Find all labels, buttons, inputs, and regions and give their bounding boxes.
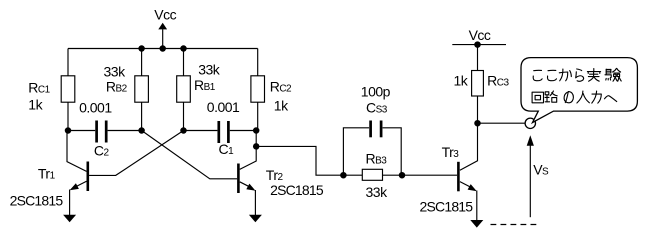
svg-text:Vcc: Vcc — [469, 27, 491, 43]
wire: rail down to RC1 — [67, 49, 69, 76]
wire: CS3 right leg — [383, 128, 402, 175]
svg-text:1k: 1k — [274, 97, 289, 113]
Tr1 emitter wire — [73, 181, 87, 188]
svg-text:Vcc: Vcc — [154, 6, 176, 22]
resistor RC2 — [251, 76, 265, 102]
svg-text:33k: 33k — [366, 184, 389, 200]
wire: Tr3 emitter to ground — [476, 191, 478, 221]
Tr1 collector wire — [67, 131, 87, 172]
wire: top Vcc rail — [68, 48, 258, 50]
wire: Vcc rail to RC3 — [477, 45, 479, 71]
node: output branch junction — [253, 143, 260, 150]
dashed reference line — [491, 224, 541, 226]
resistor RC1 — [61, 76, 75, 102]
svg-text:0.001: 0.001 — [207, 99, 240, 115]
resistor RB3 — [362, 169, 382, 180]
Tr1 emitter arrow — [70, 183, 79, 190]
wire: rail down to RB2 — [141, 49, 143, 76]
junction on rail at RB1 — [180, 45, 187, 52]
wire: Tr2 collector to RB3/CS3 net — [256, 146, 343, 175]
wire: C2 to RB2 node — [108, 130, 142, 132]
callout text line2: 回路の入力へ — [532, 92, 543, 103]
svg-text:100p: 100p — [361, 84, 391, 100]
Vs arrow — [529, 144, 531, 217]
transistor Q Tr1 base bar — [87, 162, 90, 192]
node B: right of RB3 — [399, 172, 406, 179]
ground (Tr3) — [470, 220, 483, 228]
capacitor C1 — [217, 121, 220, 143]
wire: cross-coupling RB1 node to Tr1 base — [89, 131, 183, 176]
Tr3 collector wire — [460, 123, 478, 170]
ground (Tr2) — [249, 215, 262, 223]
callout bubble — [521, 58, 637, 123]
capacitor CS3 — [369, 121, 372, 138]
node A: left of RB3 — [340, 172, 347, 179]
node: RB2 bottom junction — [138, 127, 145, 134]
svg-text:1k: 1k — [28, 97, 43, 113]
wire: CS3 left leg — [343, 128, 369, 175]
node: Tr2 collector junction — [253, 127, 260, 134]
junction on rail at RB2 — [138, 45, 145, 52]
node: Tr1 collector junction — [65, 127, 72, 134]
capacitor C2 — [95, 121, 98, 143]
resistor RB1 — [177, 76, 191, 102]
svg-text:2SC1815: 2SC1815 — [420, 198, 474, 214]
Tr3 emitter wire — [460, 182, 474, 189]
node: Tr3 collector / output — [474, 120, 481, 127]
transistor Q Tr2 base bar — [237, 164, 240, 194]
Vcc rail (right) — [452, 44, 506, 46]
Tr2 emitter arrow — [246, 184, 255, 191]
resistor RC3 — [472, 71, 484, 97]
wire: node to C1 — [184, 130, 218, 132]
Tr3 emitter arrow — [468, 184, 477, 191]
wire: rail down to RB1 — [183, 49, 185, 76]
resistor RB2 — [135, 76, 149, 102]
ground (Tr1) — [63, 215, 76, 223]
output terminal (open circle) — [525, 118, 535, 128]
wire: Tr2 emitter to ground — [254, 190, 256, 215]
wire: output node to terminal — [478, 122, 526, 124]
wire: node B to Tr3 base — [402, 174, 457, 176]
svg-text:0.001: 0.001 — [79, 100, 112, 116]
wire: RC2 to collector node — [257, 102, 259, 130]
Vcc supply symbol (left) — [162, 29, 164, 48]
svg-text:1k: 1k — [454, 73, 469, 89]
svg-text:33k: 33k — [104, 64, 127, 80]
callout text line1: ここから実験 — [533, 70, 542, 80]
wire: Tr1 emitter to ground — [69, 190, 71, 216]
node: RB1 bottom junction — [180, 127, 187, 134]
wire: RB1 to node — [183, 102, 185, 130]
svg-text:2SC1815: 2SC1815 — [10, 192, 64, 208]
wire: RB3 to node B — [382, 174, 402, 176]
svg-text:2SC1815: 2SC1815 — [270, 182, 324, 198]
wire: RB2 to node — [141, 102, 143, 130]
wire: node to C2 — [68, 130, 95, 132]
svg-text:33k: 33k — [198, 62, 221, 78]
wire: RC1 to collector node — [67, 102, 69, 130]
junction on right Vcc rail — [474, 41, 481, 48]
wire: cross-coupling RB2 node to Tr2 base — [142, 131, 238, 179]
wire: C1 to RC2 node — [230, 130, 258, 132]
transistor Q Tr3 base bar — [457, 162, 460, 192]
Tr2 collector wire — [240, 131, 257, 170]
wire: node to RB3 — [343, 174, 362, 176]
wire: rail down to RC2 — [257, 49, 259, 76]
Tr2 emitter wire — [240, 182, 253, 189]
junction on rail at Vcc stem — [159, 45, 166, 52]
wire: RC3 to collector node — [477, 96, 479, 123]
